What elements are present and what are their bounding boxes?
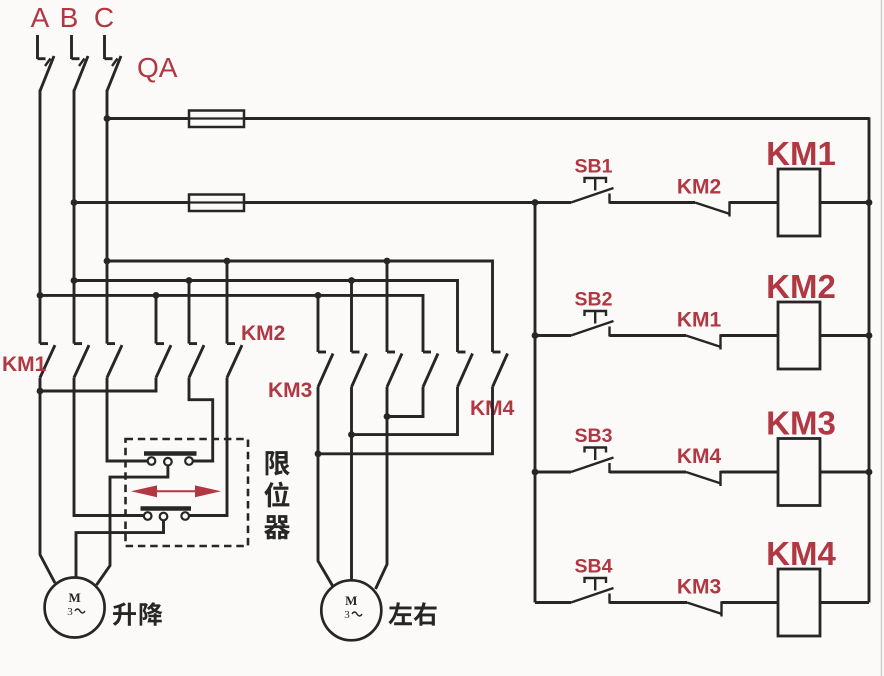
wire KM2 out1 crossover	[40, 378, 156, 391]
contact KM3 auxiliary	[687, 601, 722, 616]
contactor KM2 main contact 2	[189, 344, 204, 378]
contactor KM1 main contact 3	[107, 344, 122, 378]
pushbutton SB2	[571, 311, 614, 337]
wire drop KM3 col1	[315, 292, 322, 352]
svg-text:KM1: KM1	[766, 135, 836, 172]
coil KM4	[778, 569, 820, 636]
label SB2	[575, 289, 613, 311]
wire rung 4 right	[820, 601, 869, 604]
fuse FU2	[189, 195, 244, 212]
node junction crossover KM3c1	[315, 450, 322, 457]
limit switch S1 bridge bar	[144, 451, 197, 455]
label KM1 aux	[677, 309, 722, 332]
label 限位器	[264, 451, 290, 539]
node junction crossover KM3c3	[384, 413, 391, 420]
node junction C-bus	[104, 258, 111, 265]
wire rung 3 left	[535, 471, 571, 474]
node junction right rail rung1	[866, 199, 873, 206]
wire rung 3 to coil	[721, 471, 779, 474]
travel direction arrow	[131, 485, 221, 497]
node junction A-bus	[37, 292, 44, 299]
svg-text:KM1: KM1	[677, 309, 722, 332]
wire KM1 out B to limit switch	[74, 378, 144, 516]
node junction rail-rung3	[532, 469, 539, 476]
fuse FU1	[189, 111, 244, 128]
limit switch S2 contact mid	[160, 513, 168, 521]
limit switch box (dashed)	[126, 439, 249, 546]
wire phase B vertical	[73, 90, 76, 344]
wire rung 1 right	[820, 201, 869, 204]
wire drop KM3 col2	[348, 277, 355, 352]
label 升降	[113, 602, 163, 625]
contactor KM2 main contact 3	[227, 344, 242, 378]
node B phase label	[60, 2, 79, 33]
motor M1 (hoist)	[45, 578, 105, 638]
switch QA pole B	[72, 35, 89, 91]
contactor KM2 main contact 1	[156, 344, 171, 378]
label KM3 (main contacts)	[268, 379, 312, 402]
node junction B-L2	[71, 199, 78, 206]
label SB4	[575, 556, 613, 578]
node junction crossover-A	[37, 388, 44, 395]
label KM4 aux	[677, 445, 722, 468]
contact KM4 auxiliary	[686, 471, 721, 486]
label coil KM1	[766, 135, 836, 172]
limit switch S2 contact right	[181, 512, 189, 520]
svg-text:SB1: SB1	[575, 156, 613, 178]
wire KM3 out3 to motor2	[376, 387, 388, 589]
node junction rail-rung2	[532, 332, 539, 339]
pushbutton SB4	[571, 578, 614, 604]
wire drop KM2 col1	[153, 292, 160, 344]
wire S2 common to motor1 V	[76, 520, 164, 578]
node junction crossover KM3c2	[348, 431, 355, 438]
contactor KM3 main contact 1	[318, 352, 333, 387]
coil KM2	[778, 302, 820, 369]
wire rung 2 left	[535, 334, 571, 337]
label KM2 (main contacts)	[241, 322, 285, 345]
label KM1 (main contacts)	[2, 353, 47, 376]
label coil KM2	[766, 268, 836, 305]
wire KM4 out3 crossover	[318, 387, 493, 454]
contact KM2 auxiliary	[695, 201, 730, 216]
svg-text:KM4: KM4	[677, 445, 722, 468]
svg-text:M: M	[68, 590, 80, 605]
svg-text:KM1: KM1	[2, 353, 47, 376]
node A phase label	[31, 2, 50, 33]
label KM2 aux	[677, 176, 721, 199]
coil KM1	[778, 169, 820, 236]
wire line L2 from B to SB1	[74, 201, 571, 204]
svg-text:QA: QA	[137, 52, 178, 83]
contactor KM3 main contact 3	[387, 352, 402, 387]
label coil KM4	[766, 535, 836, 572]
node junction B-bus	[71, 277, 78, 284]
svg-text:KM2: KM2	[241, 322, 285, 345]
label coil KM3	[766, 405, 836, 442]
wire phase A vertical	[39, 90, 42, 344]
svg-text:C: C	[94, 2, 114, 33]
limit switch S2 contact left	[144, 512, 152, 520]
svg-text:SB3: SB3	[575, 425, 613, 447]
svg-text:3: 3	[67, 606, 73, 618]
limit switch S1 contact left	[148, 457, 156, 465]
node junction C-L1	[104, 115, 111, 122]
wire rung 2 to coil	[721, 334, 779, 337]
pushbutton SB1	[571, 178, 614, 204]
label QA	[137, 52, 178, 83]
pushbutton SB3	[571, 448, 614, 474]
wire KM2 out2 to limit switch	[189, 378, 213, 461]
wire drop KM2 col3	[224, 258, 231, 344]
wire rung 2 mid	[610, 334, 687, 337]
label SB1	[575, 156, 613, 178]
wire KM1 out A to motor1 U	[40, 378, 55, 583]
wire KM4 out1 crossover	[387, 387, 423, 417]
wire bus phase B (to KM2/KM3/KM4)	[74, 281, 458, 353]
wire rung 4 to coil	[722, 601, 779, 604]
node junction right rail rung3	[866, 469, 873, 476]
contact KM1 auxiliary	[686, 334, 721, 349]
wire rung 3 mid	[610, 471, 687, 474]
label KM4 (main contacts)	[470, 397, 515, 420]
wire S1 common to motor1 W	[97, 466, 168, 586]
switch QA pole C	[105, 35, 122, 91]
label SB3	[575, 425, 613, 447]
svg-text:KM3: KM3	[677, 576, 721, 599]
limit switch S2 bridge bar	[141, 506, 192, 510]
limit switch S1 contact right	[185, 457, 193, 465]
wire drop KM3 col3	[384, 258, 391, 352]
node junction left rail tap	[532, 199, 539, 206]
wire KM2 out3 to limit switch	[189, 378, 227, 516]
svg-text:A: A	[31, 2, 50, 33]
svg-text:SB2: SB2	[575, 289, 613, 311]
wire left rail	[534, 203, 537, 603]
wire KM3 out2 to motor2	[350, 387, 353, 581]
wire rung 3 right	[820, 471, 869, 474]
wire rung 1 mid	[610, 201, 696, 204]
contactor KM4 main contact 3	[493, 352, 508, 387]
wire rung 2 right	[820, 334, 869, 337]
label 左右	[388, 602, 436, 626]
wire right rail	[868, 117, 871, 602]
label KM3 aux	[677, 576, 721, 599]
svg-text:KM3: KM3	[766, 405, 836, 442]
wire phase C vertical	[106, 90, 109, 344]
page right edge line	[881, 0, 883, 676]
svg-text:KM2: KM2	[766, 268, 836, 305]
motor M2 (traverse)	[321, 580, 381, 640]
contactor KM1 main contact 1	[40, 344, 55, 378]
wire KM4 out2 crossover	[352, 387, 458, 435]
wire rung 4 left	[535, 601, 571, 604]
wire bus phase C (to KM2/KM3/KM4)	[107, 261, 493, 352]
wire bus phase A (to KM2/KM3/KM4)	[40, 295, 423, 352]
contactor KM4 main contact 2	[458, 352, 473, 387]
wire rung 1 to coil	[730, 201, 779, 204]
svg-text:B: B	[60, 2, 79, 33]
contactor KM3 main contact 2	[352, 352, 367, 387]
contactor KM4 main contact 1	[423, 352, 438, 387]
contactor KM1 main contact 2	[74, 344, 89, 378]
svg-text:KM4: KM4	[766, 535, 836, 572]
limit switch S1 contact mid	[164, 458, 172, 466]
coil KM3	[778, 439, 820, 506]
svg-text:3: 3	[344, 609, 350, 621]
wire line L1 from C to right rail	[107, 117, 869, 120]
svg-text:M: M	[345, 593, 357, 608]
node junction right rail rung2	[866, 332, 873, 339]
svg-text:SB4: SB4	[575, 556, 613, 578]
wire rung 4 mid	[610, 601, 688, 604]
wire KM3 out1 to motor2	[318, 387, 333, 587]
switch QA pole A	[38, 35, 55, 91]
wire KM1 out C to limit switch	[107, 378, 148, 461]
svg-text:KM2: KM2	[677, 176, 721, 199]
node C phase label	[94, 2, 114, 33]
svg-text:KM3: KM3	[268, 379, 312, 402]
wire drop KM2 col2	[186, 277, 193, 344]
